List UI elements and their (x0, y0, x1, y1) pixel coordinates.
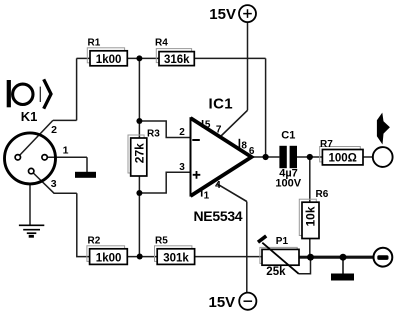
node B junction dot (136, 118, 142, 124)
svg-text:2: 2 (51, 124, 57, 136)
op-amp pin 5 stub (202, 120, 204, 128)
svg-text:1k00: 1k00 (96, 54, 122, 66)
wire node B branch to op-amp pin 2 (139, 121, 190, 138)
wire R7 to output terminal (363, 156, 373, 158)
ground terminal circle (374, 248, 393, 267)
svg-text:7: 7 (216, 125, 222, 136)
ground terminal bar (377, 255, 388, 260)
svg-text:8: 8 (241, 141, 247, 152)
wire pin3 vertical column to row B (77, 193, 90, 256)
output arrow symbol (377, 113, 390, 145)
wire op-amp output to node E (252, 156, 266, 158)
svg-text:R5: R5 (155, 236, 168, 247)
svg-text:25k: 25k (266, 266, 286, 278)
wire node G to node H thick (311, 256, 344, 259)
XLR pin 3 contact (29, 168, 34, 173)
wire P1 right terminal to node G (299, 256, 311, 259)
wire node H to ground terminal thick (343, 256, 374, 259)
op-amp top and bottom edges thick (191, 118, 252, 196)
capacitor C1 plate 1 (279, 146, 286, 168)
earth ground below XLR (19, 225, 44, 233)
output terminal circle (373, 147, 393, 167)
wire R5 to P1 crossing supply line (194, 256, 262, 258)
-15V minus sign (244, 300, 253, 302)
resistor R3 27k vertical (128, 128, 160, 176)
+15V plus sign (243, 9, 252, 18)
op-amp inverting minus sign (192, 139, 200, 141)
wire node E to C1 (266, 156, 280, 158)
node A junction dot (136, 55, 142, 61)
svg-text:1: 1 (204, 190, 210, 201)
microphone symbol capsule bar (7, 80, 11, 107)
resistor R4 316k (155, 38, 194, 66)
svg-text:6: 6 (249, 146, 255, 157)
potentiometer P1 25k (258, 236, 299, 278)
microphone symbol capsule circle (13, 84, 33, 104)
svg-text:P1: P1 (276, 236, 289, 247)
node E junction dot (263, 154, 269, 160)
svg-text:15V: 15V (209, 6, 236, 23)
wire P1 wiper to node G (299, 257, 311, 274)
resistor R6 10k vertical (299, 189, 328, 239)
-15V supply circle (239, 293, 256, 310)
wire +15V diagonal to op-amp pin 7 (221, 110, 248, 136)
wire pin2 horizontal jog (53, 119, 77, 121)
svg-text:4: 4 (215, 180, 221, 191)
wire C1 to R7 through node F (297, 156, 323, 158)
node F junction dot (307, 154, 313, 160)
wire R6 bottom to node G (309, 238, 311, 257)
XLR pin 2 contact (15, 155, 20, 160)
wire feedback vertical to output node (265, 58, 267, 157)
node C junction dot (136, 190, 142, 196)
svg-text:10k: 10k (303, 206, 317, 226)
svg-text:R3: R3 (147, 128, 160, 139)
svg-text:316k: 316k (164, 54, 190, 66)
+15V supply circle (239, 5, 256, 22)
resistor R7 100R (320, 139, 363, 165)
svg-text:R6: R6 (316, 189, 329, 200)
node G junction dot (307, 254, 314, 261)
svg-text:R7: R7 (320, 139, 333, 150)
wire R4 to feedback corner (194, 57, 265, 59)
svg-text:27k: 27k (133, 143, 147, 163)
svg-text:C1: C1 (281, 130, 295, 142)
wire XLR shell stem to earth ground (29, 185, 31, 225)
svg-text:R2: R2 (88, 236, 101, 247)
XLR pin 1 contact (42, 155, 47, 160)
svg-text:K1: K1 (21, 109, 38, 124)
svg-text:IC1: IC1 (209, 96, 234, 113)
microphone sound arrow back line (39, 87, 41, 102)
resistor R5 301k (155, 236, 195, 265)
svg-text:3: 3 (51, 178, 57, 190)
wire R1 to R4 through node A (127, 57, 159, 59)
op-amp left edge (190, 117, 192, 196)
wire node C branch to op-amp pin 3 (139, 172, 190, 193)
svg-text:5: 5 (205, 119, 211, 130)
wire row A from K1 pin2 column to R1 (77, 57, 91, 59)
chassis ground bar at XLR pin 1 (75, 172, 96, 178)
node D junction dot (137, 254, 143, 260)
microphone sound arrow chevron (44, 79, 51, 108)
connector K1 XLR shell circle (5, 133, 56, 184)
svg-text:2: 2 (179, 127, 185, 138)
svg-text:15V: 15V (208, 294, 235, 311)
svg-text:NE5534: NE5534 (194, 208, 243, 224)
resistor R1 1k00 (87, 38, 127, 66)
op-amp IC1 triangle body (191, 118, 252, 196)
wire R2 to R5 through node D (127, 256, 157, 258)
op-amp pin 8 stub (238, 139, 240, 149)
wire XLR pin3 diagonal (33, 173, 76, 193)
wire node A down to R3 top (138, 58, 140, 138)
svg-text:R4: R4 (155, 38, 168, 49)
op-amp non-inverting plus sign (193, 171, 201, 179)
wire K1 pin2 vertical column (76, 58, 78, 120)
wire R3 bottom down to node D (138, 176, 140, 257)
svg-text:3: 3 (179, 162, 185, 173)
resistor R2 1k00 (87, 236, 127, 265)
P1 wiper diagonal (262, 243, 298, 274)
wire -15V supply vertical (246, 202, 248, 293)
svg-text:R1: R1 (88, 38, 101, 49)
svg-text:301k: 301k (163, 252, 189, 264)
svg-text:1: 1 (63, 145, 69, 157)
svg-text:100Ω: 100Ω (328, 153, 356, 165)
svg-text:100V: 100V (275, 177, 301, 189)
wire pin2 diagonal into XLR (20, 120, 53, 155)
node H junction dot (340, 254, 347, 261)
P1 wiper arrow bar (258, 236, 266, 242)
op-amp pin 1 stub (201, 189, 203, 197)
wire node F down to R6 (309, 157, 311, 203)
chassis ground bar at node H (331, 274, 354, 281)
svg-text:1k00: 1k00 (96, 252, 122, 264)
wire op-amp pin 4 diagonal to -15V (217, 184, 247, 202)
capacitor C1 plate 2 (290, 146, 297, 168)
wire XLR pin1 to chassis ground (48, 157, 87, 172)
wire +15V supply vertical (247, 22, 249, 110)
wire node H stem to chassis ground (342, 257, 344, 274)
